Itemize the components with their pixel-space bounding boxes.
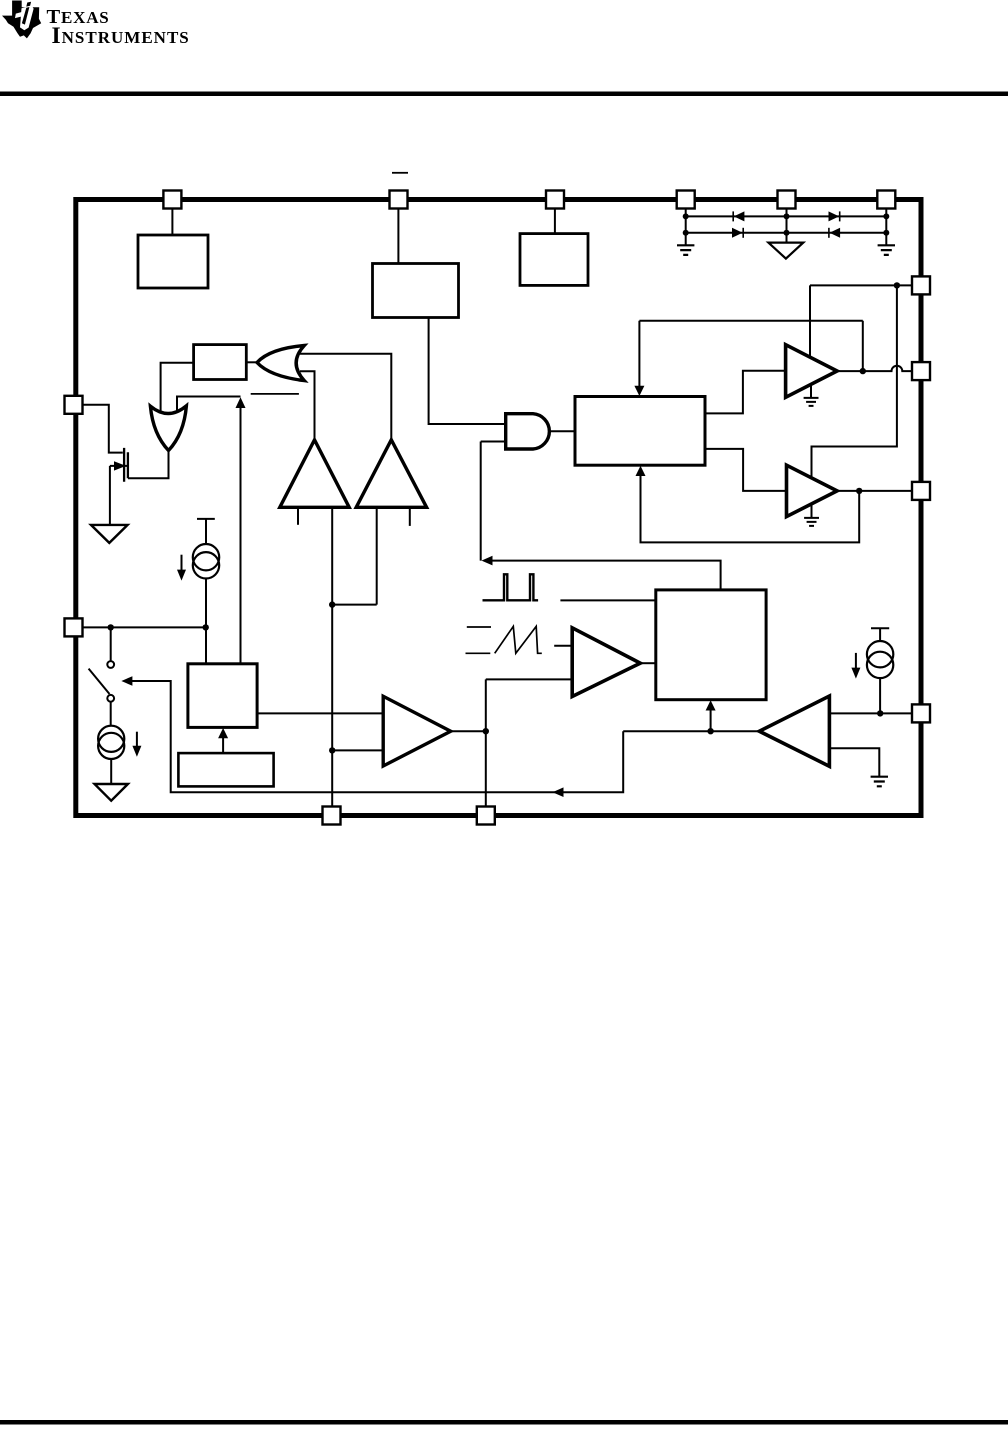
oscillator box: [188, 664, 257, 728]
ground chassis below I2: [95, 784, 128, 801]
junction dot comparator inputs join: [329, 601, 335, 607]
buffer triangle bottom middle: [383, 696, 451, 766]
diode D2 rail1 right: [829, 211, 840, 221]
wire comparator1 apex to OR1 lower input: [300, 371, 315, 440]
box UVLO top left: [138, 235, 208, 288]
junction dot lower driver output: [856, 488, 862, 494]
junction dot upper driver output: [860, 368, 866, 374]
junction dot buffer output: [483, 728, 489, 734]
wire pin T2 down to box3: [554, 203, 556, 234]
pin R2: [912, 362, 930, 380]
arrow for current source I1: [181, 555, 183, 574]
box1 deglitch: [194, 345, 247, 380]
wire clock from logic box top to AND input 2, arrow left: [492, 561, 721, 590]
current source I1 mid left: [197, 519, 215, 544]
pin T3 stem: [685, 203, 687, 245]
junction dot switch tee: [108, 624, 114, 630]
junction dots ESD rails: [683, 213, 689, 219]
wire lower driver feedback to latch bottom, arrow up: [641, 474, 860, 542]
wire latch lower output to lower driver input: [705, 449, 787, 491]
pin B2: [477, 807, 495, 825]
IC boundary box: [76, 200, 921, 816]
pin R1: [912, 276, 930, 294]
PWM comparator triangle right: [572, 628, 640, 697]
pin R3: [912, 482, 930, 500]
junction dot buffer lower input: [329, 747, 335, 753]
arrow into oscillator bottom: [222, 735, 224, 753]
pin T4: [778, 191, 796, 209]
IEC ground right comparator: [871, 777, 888, 787]
wire pin L2 rail: [83, 626, 206, 628]
current source I3 right: [871, 628, 889, 641]
comparator triangle 2 up: [356, 440, 426, 508]
pin T5 stem: [885, 203, 887, 245]
wire upper driver output to pin B with hop: [837, 366, 912, 371]
wire buffer output node: [451, 679, 573, 807]
pin L1: [65, 396, 83, 414]
arrow for current source I2: [136, 732, 138, 750]
AND gate: [506, 414, 550, 449]
wire right comparator output to logic box bottom arrow and switch control: [132, 681, 759, 792]
wire AND input 2 vertical: [481, 442, 506, 561]
wire pin L1 to MOSFET gate: [83, 405, 123, 453]
junction dot pin A net: [894, 282, 900, 288]
wire box2 bottom to AND input 1: [429, 318, 506, 425]
right comparator triangle pointing left: [759, 696, 829, 766]
box below oscillator: [178, 753, 273, 786]
ESD rail 1: [686, 215, 887, 217]
arrow for current source I3: [855, 653, 857, 672]
junction dot logic box bottom: [707, 728, 713, 734]
pin T3: [677, 191, 695, 209]
wire pin A to upper driver supply: [810, 285, 912, 357]
pin T2: [546, 191, 564, 209]
wire latch upper output to upper driver input: [705, 371, 786, 414]
ramp waveform glyph: [466, 626, 542, 653]
TI logo texas map: [2, 1, 190, 49]
footer rule: [0, 1420, 1008, 1425]
wire sense net down to pin E: [332, 605, 383, 807]
switch symbol: [110, 627, 112, 661]
current source I2 bottom left: [98, 726, 124, 752]
chassis ground below MOSFET: [91, 525, 128, 543]
wire osc vertical to OR2 input B, arrow up: [177, 397, 241, 664]
OR gate 1 pointing left: [257, 346, 304, 381]
wire right comparator input to pin D: [829, 712, 912, 714]
overline label mark near OR1: [251, 393, 299, 395]
OR gate 2 pointing down: [150, 406, 186, 451]
upper driver triangle: [786, 345, 838, 398]
wire comparator2 apex to OR1 upper input: [299, 354, 391, 440]
diode D1 rail1 left: [733, 211, 744, 221]
latch box: [575, 397, 705, 466]
ground below upper driver: [804, 384, 819, 406]
wire OR1 output to box1: [246, 361, 258, 363]
MOSFET Q1: [124, 448, 128, 482]
box3 top: [520, 234, 588, 286]
wire ramp stub to PWM comparator: [554, 645, 572, 647]
header rule: [0, 92, 1008, 97]
lower driver triangle: [787, 465, 838, 516]
pin T0: [163, 191, 181, 209]
chassis ground below pin T4: [768, 243, 803, 259]
wire OR2 output to MOSFET drain: [128, 451, 169, 479]
wire oscillator output to buffer input: [257, 712, 383, 714]
pin T4 stem: [786, 203, 788, 243]
wire clock glyph line into logic box: [560, 599, 655, 601]
overline above pin T1: [392, 172, 408, 174]
junction dot current source I1 stem: [203, 624, 209, 630]
IEC ground below pin T3: [677, 245, 694, 255]
wire box1 left to OR2 input A: [161, 363, 194, 411]
wire feedback upper driver output to latch top, arrow down: [639, 321, 862, 388]
wire right comparator lower input to ground: [829, 748, 879, 777]
pin B1: [323, 807, 341, 825]
pin T5: [877, 191, 895, 209]
comparator1 left input stub: [297, 507, 299, 525]
pin T1: [390, 191, 408, 209]
wire AND output to latch: [551, 430, 575, 432]
comparator1 right input long wire: [332, 507, 377, 604]
pin R4: [912, 704, 930, 722]
pulse waveform glyph: [483, 574, 539, 600]
wire supply vertical from pin A net to lower driver top: [812, 285, 897, 478]
comparator2 right input stub: [409, 507, 411, 526]
comparator triangle 1 up: [280, 440, 349, 508]
logic box right: [656, 590, 766, 700]
diode D3 rail2 left: [732, 228, 743, 238]
diode D4 rail2 right: [829, 228, 840, 238]
wire lower driver output to pin C: [837, 490, 912, 492]
ESD rail 2: [686, 232, 887, 234]
pin L2: [65, 618, 83, 636]
ground below lower driver: [804, 504, 819, 526]
box2 top middle: [373, 264, 459, 318]
IEC ground below pin T5: [878, 245, 895, 255]
wire pin T1 down to box2: [397, 203, 399, 264]
wire PWM comparator output to logic box: [640, 662, 656, 664]
junction dot pin D net: [877, 710, 883, 716]
wire pin T0 to box UVLO: [171, 203, 173, 235]
